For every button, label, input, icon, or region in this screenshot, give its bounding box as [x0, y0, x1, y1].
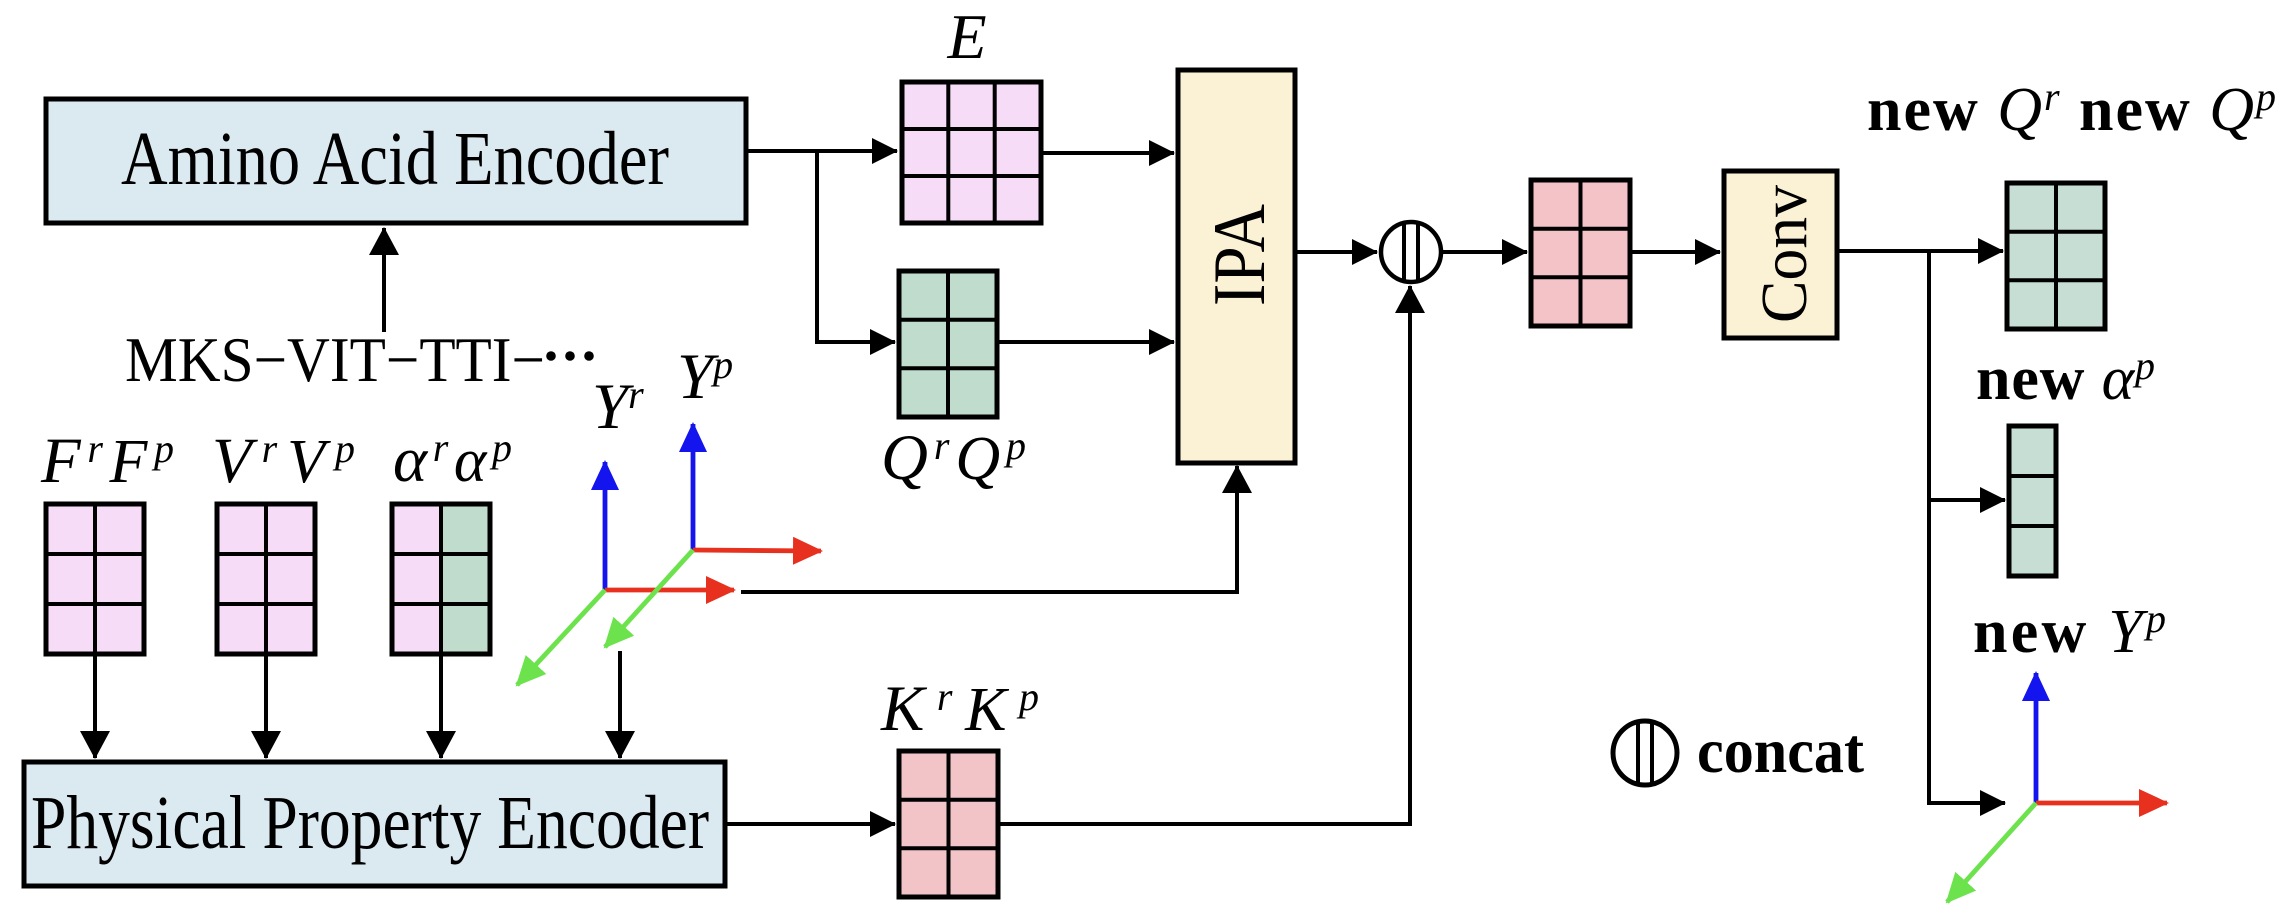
svg-text:Conv: Conv [1748, 185, 1821, 323]
wire: Q to IPA [997, 340, 1174, 344]
box IPA [1178, 70, 1295, 463]
wire: pink matrix to Conv [1630, 250, 1720, 254]
matrix E (3x3 pink) [902, 82, 1041, 223]
svg-text:new Yp: new Yp [1973, 596, 2166, 666]
matrix V (2x3 pink) [217, 504, 315, 654]
wire: PPE to K [725, 822, 895, 826]
svg-text:Physical Property Encoder: Physical Property Encoder [31, 781, 709, 865]
wire: branch down to Q [817, 151, 895, 342]
wire: IPA to concat [1295, 250, 1377, 254]
box: Physical Property Encoder [24, 762, 725, 886]
wire: E to IPA [1041, 151, 1174, 155]
svg-text:E: E [946, 1, 986, 72]
svg-text:MKS−VIT−TTI−: MKS−VIT−TTI− [125, 324, 545, 395]
matrix pink mid (2x3) [1531, 180, 1630, 326]
axes frame Yp [605, 424, 821, 647]
wire: concat to pink matrix [1441, 250, 1527, 254]
wire: MKS to Amino Acid Encoder [382, 228, 386, 332]
svg-text:new αp: new αp [1976, 343, 2155, 413]
svg-text:new Qr new Qp: new Qr new Qp [1867, 74, 2276, 144]
wire: Conv to new Q [1837, 249, 2003, 253]
matrix new alpha (1x3 green) [2009, 426, 2056, 576]
svg-text:IPA: IPA [1199, 204, 1281, 306]
concat node (circle) [1381, 222, 1441, 282]
matrix alpha (2x3 pink/green) [392, 504, 490, 654]
box Conv [1724, 171, 1837, 338]
axes frame new Yp (bottom right) [1947, 673, 2167, 902]
svg-text:concat: concat [1697, 715, 1865, 786]
wire: frames down to Physical Property Encoder [618, 651, 622, 758]
matrix new Q (2x3 green) [2007, 183, 2105, 329]
matrix F (2x3 pink) [46, 504, 144, 654]
wire: K right then up to concat [998, 286, 1410, 824]
box: Amino Acid Encoder [46, 99, 746, 223]
matrix Qr Qp (2x3 green) [899, 271, 997, 417]
wire: branch down from Conv output [1929, 251, 2005, 803]
axes frame Yr [517, 462, 734, 685]
matrix K (2x3 red) [899, 751, 998, 897]
wire: Yr red axis to IPA bottom [741, 466, 1237, 592]
wire: branch to new alpha [1929, 498, 2005, 502]
svg-text:Amino Acid Encoder: Amino Acid Encoder [121, 117, 669, 201]
wire: encoder out to E [746, 149, 897, 153]
legend concat [1613, 715, 1865, 786]
wires: F V alpha down arrows [93, 656, 97, 758]
